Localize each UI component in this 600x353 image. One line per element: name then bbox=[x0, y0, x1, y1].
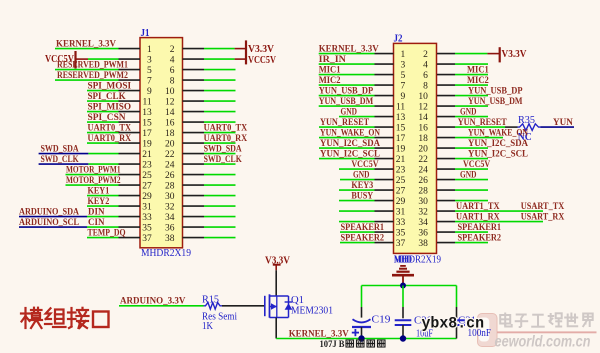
wire J2 pin 30 stub bbox=[437, 200, 488, 202]
wire J1 pin 12 stub bbox=[183, 100, 236, 102]
wire J2 pin 34 (UART1_RX) bbox=[437, 221, 543, 223]
wire J1 pin 28 stub bbox=[183, 184, 236, 186]
wire J2 pin 3 (IR_IN) bbox=[319, 63, 394, 65]
svg-text:KEY1: KEY1 bbox=[88, 186, 110, 196]
svg-text:27: 27 bbox=[396, 187, 406, 197]
watermark text 电子工程世界 bbox=[500, 313, 512, 327]
value text 型钽电容 (tantalum capacitor) bbox=[346, 340, 354, 347]
wire J2 pin 4 stub bbox=[437, 63, 488, 65]
svg-text:YUN_USB_DM: YUN_USB_DM bbox=[319, 97, 374, 107]
svg-text:17: 17 bbox=[396, 134, 406, 144]
watermark red underline bbox=[497, 331, 597, 333]
wire J1 pin 2 to power bbox=[183, 48, 246, 50]
svg-text:USART_TX: USART_TX bbox=[521, 202, 565, 212]
svg-text:YUN: YUN bbox=[553, 118, 573, 128]
svg-text:UART0_RX: UART0_RX bbox=[204, 134, 248, 144]
wire R35 to YUN bbox=[541, 126, 575, 128]
svg-text:33: 33 bbox=[396, 218, 406, 228]
svg-text:21: 21 bbox=[396, 155, 406, 165]
svg-text:19: 19 bbox=[396, 145, 406, 155]
svg-text:3: 3 bbox=[147, 56, 152, 66]
title text 组 bbox=[45, 308, 66, 327]
svg-text:SPEAKER2: SPEAKER2 bbox=[341, 233, 385, 243]
wire J1 pin 18 stub bbox=[183, 132, 236, 134]
wire J2 pin 18 stub bbox=[437, 137, 503, 139]
capacitor C19 bbox=[352, 286, 371, 339]
svg-text:DIN: DIN bbox=[88, 207, 105, 217]
power port V3.3V / VCC5V bar right of J1 bbox=[245, 40, 247, 64]
wire J1 pin 38 stub bbox=[183, 237, 236, 239]
svg-text:VCC5V: VCC5V bbox=[248, 55, 277, 66]
svg-text:10: 10 bbox=[418, 92, 428, 102]
wire J2 pin 14 stub bbox=[437, 116, 488, 118]
wire KERNEL_3.3V rail (bottom) bbox=[276, 338, 456, 340]
svg-text:35: 35 bbox=[396, 229, 406, 239]
svg-text:15: 15 bbox=[142, 119, 152, 129]
svg-text:KERNEL_3.3V: KERNEL_3.3V bbox=[319, 44, 379, 54]
svg-text:GND: GND bbox=[353, 170, 369, 180]
svg-text:RESERVED_PWM2: RESERVED_PWM2 bbox=[57, 71, 128, 81]
svg-text:USART_RX: USART_RX bbox=[521, 212, 565, 222]
svg-text:28: 28 bbox=[165, 182, 175, 192]
svg-text:14: 14 bbox=[165, 108, 175, 118]
svg-text:38: 38 bbox=[418, 239, 428, 249]
wire J1 pin 14 stub bbox=[183, 111, 236, 113]
capacitor C20 bbox=[395, 286, 412, 339]
wire J2 pin 11 (YUN_USB_DM) bbox=[319, 105, 394, 107]
wire J2 pin 24 stub bbox=[437, 168, 488, 170]
wire J2 pin 5 (MIC1) bbox=[319, 74, 394, 76]
svg-text:TEMP_DQ: TEMP_DQ bbox=[88, 228, 126, 238]
wire J2 pin 6 stub bbox=[437, 74, 488, 76]
svg-text:CIN: CIN bbox=[88, 218, 105, 228]
svg-text:6: 6 bbox=[170, 66, 175, 76]
svg-text:R15: R15 bbox=[202, 294, 219, 305]
svg-text:4: 4 bbox=[170, 56, 175, 66]
svg-text:RESERVED_PWM1: RESERVED_PWM1 bbox=[57, 60, 128, 70]
svg-text:30: 30 bbox=[165, 192, 175, 202]
svg-text:20: 20 bbox=[418, 145, 428, 155]
svg-text:36: 36 bbox=[418, 229, 428, 239]
wire J2 pin 17 (YUN_WAKE_ON) bbox=[319, 137, 394, 139]
svg-text:ARDUINO_SCL: ARDUINO_SCL bbox=[19, 218, 79, 228]
wire J1 pin 35 (CIN) bbox=[19, 226, 140, 228]
svg-text:SPI_CLK: SPI_CLK bbox=[88, 92, 127, 102]
svg-text:20: 20 bbox=[165, 140, 175, 150]
wire J2 pin 13 (GND) bbox=[339, 116, 394, 118]
plus sign of C19 bbox=[352, 329, 359, 336]
svg-text:22: 22 bbox=[418, 155, 428, 165]
svg-text:YUN_USB_DP: YUN_USB_DP bbox=[468, 86, 523, 96]
wire J1 pin 7 (RESERVED_PWM2) bbox=[55, 79, 140, 81]
wire J1 pin 34 stub bbox=[183, 216, 236, 218]
wire J1 pin 27 (MOTOR_PWM2) bbox=[66, 184, 141, 186]
svg-text:KEY2: KEY2 bbox=[88, 197, 110, 207]
wire J2 pin 32 (UART1_TX) bbox=[437, 210, 543, 212]
svg-text:SPI_MISO: SPI_MISO bbox=[88, 102, 132, 112]
wire J2 pin 38 stub bbox=[437, 242, 488, 244]
wire J2 pin 9 (YUN_USB_DP) bbox=[319, 95, 394, 97]
svg-text:24: 24 bbox=[165, 161, 175, 171]
wire J2 pin 16 YUN_RESET to R35 bbox=[437, 126, 518, 128]
title text 模 (module) bbox=[21, 308, 42, 328]
svg-text:MIC2: MIC2 bbox=[467, 76, 489, 86]
svg-text:32: 32 bbox=[418, 208, 428, 218]
svg-text:31: 31 bbox=[396, 208, 406, 218]
svg-text:7: 7 bbox=[400, 82, 405, 92]
svg-text:YUN_I2C_SDA: YUN_I2C_SDA bbox=[320, 139, 380, 149]
svg-text:SPEAKER1: SPEAKER1 bbox=[458, 223, 502, 233]
wire J2 pin 37 (SPEAKER2) bbox=[340, 242, 394, 244]
title text 接 bbox=[68, 308, 89, 328]
svg-text:BUSY: BUSY bbox=[351, 191, 373, 201]
svg-text:6: 6 bbox=[423, 71, 428, 81]
svg-text:18: 18 bbox=[165, 129, 175, 139]
svg-text:VCC5V: VCC5V bbox=[463, 160, 490, 170]
svg-text:UART1_RX: UART1_RX bbox=[456, 212, 500, 222]
svg-text:YUN_I2C_SCL: YUN_I2C_SCL bbox=[468, 149, 528, 159]
wire J2 pin 2 to power V3.3V bbox=[437, 53, 500, 55]
svg-text:V3.3V: V3.3V bbox=[502, 49, 528, 60]
svg-text:4: 4 bbox=[423, 61, 428, 71]
wire J2 pin 7 (MIC2) bbox=[319, 84, 394, 86]
svg-text:9: 9 bbox=[400, 92, 405, 102]
J2 pin numbers bbox=[396, 50, 428, 249]
svg-text:YUN_USB_DM: YUN_USB_DM bbox=[468, 97, 523, 107]
svg-text:30: 30 bbox=[418, 197, 428, 207]
svg-text:UART0_TX: UART0_TX bbox=[204, 123, 248, 133]
wire J1 pin 25 (MOTOR_PWM1) bbox=[66, 174, 141, 176]
svg-text:13: 13 bbox=[396, 113, 406, 123]
svg-text:35: 35 bbox=[142, 224, 152, 234]
svg-text:16: 16 bbox=[418, 124, 428, 134]
svg-text:12: 12 bbox=[165, 98, 175, 108]
svg-text:YUN_RESET: YUN_RESET bbox=[458, 118, 508, 128]
svg-text:MIC1: MIC1 bbox=[319, 65, 341, 75]
svg-text:SPI_CSN: SPI_CSN bbox=[88, 113, 126, 123]
power port VCC5V at J1 pin 3 bbox=[45, 51, 140, 69]
wire J1 pin 36 stub bbox=[183, 226, 236, 228]
svg-text:Q1: Q1 bbox=[291, 295, 304, 306]
wire J1 pin 23 (SWD_CLK) bbox=[39, 163, 140, 165]
wire J2 pin 15 (YUN_RESET) bbox=[319, 126, 394, 128]
svg-text:8: 8 bbox=[423, 82, 428, 92]
svg-text:J1: J1 bbox=[141, 28, 150, 39]
svg-text:MOTOR_PWM2: MOTOR_PWM2 bbox=[66, 176, 121, 186]
resistor R15 bbox=[204, 303, 223, 310]
svg-text:25: 25 bbox=[142, 171, 152, 181]
svg-text:16: 16 bbox=[165, 119, 175, 129]
svg-text:22: 22 bbox=[165, 150, 175, 160]
svg-text:2: 2 bbox=[170, 45, 175, 55]
svg-text:YUN_I2C_SCL: YUN_I2C_SCL bbox=[320, 149, 380, 159]
wire J2 pin 33 stub bbox=[339, 221, 394, 223]
wire J2 pin 36 stub bbox=[437, 231, 488, 233]
wire J2 pin 35 (SPEAKER1) bbox=[340, 231, 394, 233]
wire J1 pin 33 (DIN) bbox=[19, 216, 140, 218]
svg-text:C19: C19 bbox=[372, 315, 391, 326]
wire J1 pin 30 stub bbox=[183, 195, 236, 197]
wire J2 pin 20 stub bbox=[437, 147, 488, 149]
transistor Q1 MOSFET MEM2301 bbox=[265, 294, 293, 317]
svg-text:UART0_RX: UART0_RX bbox=[88, 134, 132, 144]
svg-text:2: 2 bbox=[423, 50, 428, 60]
wire Q1 drain down bbox=[275, 318, 277, 339]
wire R15 to Q1 gate bbox=[222, 305, 265, 307]
wire J2 pin 28 stub bbox=[437, 189, 488, 191]
svg-text:J2: J2 bbox=[394, 34, 403, 45]
svg-text:24: 24 bbox=[418, 166, 428, 176]
svg-text:YUN_WAKE_ON: YUN_WAKE_ON bbox=[320, 128, 380, 138]
svg-text:13: 13 bbox=[142, 108, 152, 118]
wire J1 pin 8 stub bbox=[183, 79, 236, 81]
svg-text:21: 21 bbox=[142, 150, 152, 160]
wire J2 pin 21 (YUN_I2C_SCL) bbox=[319, 158, 394, 160]
svg-text:5: 5 bbox=[147, 66, 152, 76]
wire J2 pin 8 stub bbox=[437, 84, 488, 86]
svg-text:MEM2301: MEM2301 bbox=[291, 306, 333, 317]
svg-text:GND: GND bbox=[460, 107, 476, 117]
power port V3.3V above Q1 bbox=[265, 255, 291, 270]
svg-text:10: 10 bbox=[165, 87, 175, 97]
svg-text:SPEAKER2: SPEAKER2 bbox=[458, 233, 502, 243]
wire J2 pin 27 (KEY3) bbox=[339, 189, 394, 191]
wire J2 pin 12 stub bbox=[437, 105, 488, 107]
svg-text:eeworld.com.cn: eeworld.com.cn bbox=[495, 334, 591, 351]
svg-text:25: 25 bbox=[396, 176, 406, 186]
svg-text:34: 34 bbox=[165, 213, 175, 223]
svg-text:34: 34 bbox=[418, 218, 428, 228]
eeworld logo bbox=[478, 314, 498, 347]
svg-text:7: 7 bbox=[147, 77, 152, 87]
wire J2 pin 29 (BUSY) bbox=[339, 200, 394, 202]
svg-text:11: 11 bbox=[143, 98, 152, 108]
svg-text:GND: GND bbox=[341, 107, 357, 117]
wire ARDUINO_3.3V to R15 bbox=[119, 305, 204, 307]
svg-text:19: 19 bbox=[142, 140, 152, 150]
connector J1 body bbox=[140, 38, 183, 248]
svg-text:YUN_USB_DP: YUN_USB_DP bbox=[319, 86, 374, 96]
wire J2 pin 10 stub bbox=[437, 95, 488, 97]
wire J1 pin 26 stub bbox=[183, 174, 236, 176]
svg-text:33: 33 bbox=[142, 213, 152, 223]
ground symbol GND bbox=[392, 266, 414, 286]
wire J2 pin 26 stub bbox=[437, 179, 488, 181]
svg-text:IR_IN: IR_IN bbox=[319, 55, 346, 65]
svg-text:ARDUINO_SDA: ARDUINO_SDA bbox=[19, 207, 79, 217]
svg-text:YUN_I2C_SDA: YUN_I2C_SDA bbox=[468, 139, 528, 149]
svg-text:23: 23 bbox=[396, 166, 406, 176]
wire J1 pin 10 stub bbox=[183, 90, 236, 92]
svg-text:SWD_SDA: SWD_SDA bbox=[204, 144, 242, 154]
svg-text:SPEAKER1: SPEAKER1 bbox=[341, 223, 385, 233]
wire J1 pin 5 (RESERVED_PWM1) bbox=[55, 69, 140, 71]
power port V3.3V bar right of J2 bbox=[499, 47, 501, 62]
wire J1 pin 37 (TEMP_DQ) bbox=[87, 237, 140, 239]
wire J2 pin 23 (VCC5V) bbox=[339, 168, 394, 170]
junction top rail at C20 bbox=[400, 283, 406, 289]
svg-text:9: 9 bbox=[147, 87, 152, 97]
svg-text:28: 28 bbox=[418, 187, 428, 197]
svg-text:1: 1 bbox=[400, 50, 405, 60]
svg-text:27: 27 bbox=[142, 182, 152, 192]
svg-text:ybx8.cn: ybx8.cn bbox=[422, 314, 485, 332]
wire J1 pin 20 stub bbox=[183, 142, 236, 144]
svg-text:SPI_MOSI: SPI_MOSI bbox=[88, 81, 132, 91]
wire J1 pin 11 (SPI_CLK) bbox=[87, 100, 140, 102]
svg-text:8: 8 bbox=[170, 77, 175, 87]
svg-text:YUN_RESET: YUN_RESET bbox=[320, 118, 370, 128]
wire J1 pin 22 stub bbox=[183, 153, 236, 155]
svg-text:17: 17 bbox=[142, 129, 152, 139]
svg-text:14: 14 bbox=[418, 113, 428, 123]
wire J1 pin 13 (SPI_MISO) bbox=[87, 111, 140, 113]
svg-text:SWD_CLK: SWD_CLK bbox=[41, 155, 80, 165]
svg-text:26: 26 bbox=[165, 171, 175, 181]
wire J1 pin 24 stub bbox=[183, 163, 236, 165]
svg-text:3: 3 bbox=[400, 61, 405, 71]
svg-text:1K: 1K bbox=[202, 321, 214, 332]
wire J1 pin 32 stub bbox=[183, 205, 236, 207]
svg-text:GND: GND bbox=[460, 170, 476, 180]
junction bottom rail at C19 bbox=[358, 335, 364, 341]
wire J1 pin 4 to power bbox=[183, 58, 246, 60]
wire V3.3V to Q1 source bbox=[275, 270, 277, 296]
wire J1 pin 6 stub bbox=[183, 69, 236, 71]
title text 口 bbox=[93, 312, 109, 328]
wire J1 pin 1 (KERNEL_3.3V) bbox=[55, 48, 140, 50]
svg-text:R35: R35 bbox=[518, 115, 535, 126]
wire top rail bbox=[362, 285, 457, 287]
svg-text:18: 18 bbox=[418, 134, 428, 144]
wire J2 pin 31 stub bbox=[339, 210, 394, 212]
svg-text:SWD_SDA: SWD_SDA bbox=[41, 144, 79, 154]
svg-text:11: 11 bbox=[396, 103, 405, 113]
capacitor C21 bbox=[448, 286, 465, 339]
svg-text:UART1_TX: UART1_TX bbox=[456, 202, 500, 212]
svg-text:26: 26 bbox=[418, 176, 428, 186]
svg-text:32: 32 bbox=[165, 203, 175, 213]
svg-text:37: 37 bbox=[142, 234, 152, 244]
svg-text:KERNEL_3.3V: KERNEL_3.3V bbox=[289, 329, 349, 339]
wire J1 pin 17 (UART0_TX) bbox=[87, 132, 140, 134]
svg-text:MHDR2X19: MHDR2X19 bbox=[141, 248, 191, 259]
svg-text:MIC2: MIC2 bbox=[319, 76, 341, 86]
wire J1 pin 16 stub bbox=[183, 121, 236, 123]
svg-text:1: 1 bbox=[147, 45, 152, 55]
wire J2 pin 1 (KERNEL_3.3V) bbox=[319, 53, 394, 55]
J1 pin numbers bbox=[142, 45, 175, 244]
wire J1 pin 21 (SWD_SDA) bbox=[39, 153, 140, 155]
wire J2 pin 25 (GND) bbox=[340, 179, 394, 181]
wire J1 pin 31 (KEY2) bbox=[87, 205, 140, 207]
wire J1 pin 29 (KEY1) bbox=[87, 195, 140, 197]
wire J1 pin 19 (UART0_RX) bbox=[87, 142, 140, 144]
svg-text:KERNEL_3.3V: KERNEL_3.3V bbox=[56, 39, 116, 49]
wire J1 pin 15 (SPI_CSN) bbox=[87, 121, 140, 123]
svg-text:29: 29 bbox=[396, 197, 406, 207]
svg-text:37: 37 bbox=[396, 239, 406, 249]
svg-text:15: 15 bbox=[396, 124, 406, 134]
svg-text:12: 12 bbox=[418, 103, 428, 113]
svg-text:36: 36 bbox=[165, 224, 175, 234]
svg-text:MOTOR_PWM1: MOTOR_PWM1 bbox=[66, 165, 121, 175]
svg-text:KEY3: KEY3 bbox=[351, 181, 373, 191]
svg-text:MIC1: MIC1 bbox=[467, 65, 489, 75]
junction bottom rail at C20 bbox=[400, 335, 406, 341]
connector J2 body bbox=[394, 43, 437, 253]
wire J1 pin 9 (SPI_MOSI) bbox=[87, 90, 140, 92]
svg-text:31: 31 bbox=[142, 203, 152, 213]
wire J2 pin 19 (YUN_I2C_SDA) bbox=[319, 147, 394, 149]
svg-text:5: 5 bbox=[400, 71, 405, 81]
svg-text:MHD: MHD bbox=[394, 254, 412, 265]
wire J2 pin 22 stub bbox=[437, 158, 488, 160]
svg-text:SWD_CLK: SWD_CLK bbox=[204, 155, 243, 165]
svg-text:29: 29 bbox=[142, 192, 152, 202]
svg-text:38: 38 bbox=[165, 234, 175, 244]
svg-text:VCC5V: VCC5V bbox=[351, 160, 378, 170]
svg-text:23: 23 bbox=[142, 161, 152, 171]
resistor R35 bbox=[518, 124, 541, 131]
svg-text:107J B: 107J B bbox=[320, 339, 345, 349]
svg-text:YUN_WAKE_ON: YUN_WAKE_ON bbox=[468, 128, 528, 138]
svg-text:UART0_TX: UART0_TX bbox=[88, 123, 132, 133]
svg-text:V3.3V: V3.3V bbox=[248, 44, 275, 55]
